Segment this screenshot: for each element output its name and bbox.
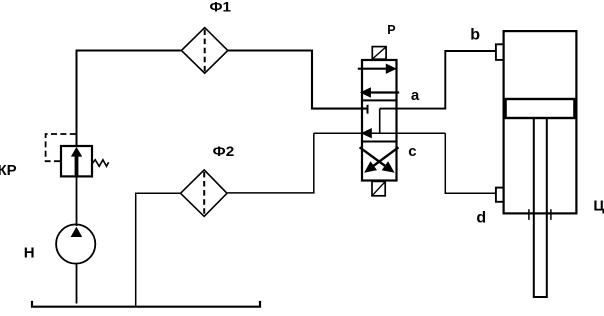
valve bottom pilot square <box>372 181 385 195</box>
piston rod <box>534 119 547 298</box>
tank <box>32 301 260 307</box>
svg-text:a: a <box>411 87 420 104</box>
spring of relief valve <box>92 160 108 167</box>
cylinder Ц body <box>504 31 577 213</box>
valve top position: arrow left <box>360 87 399 97</box>
valve top pilot square <box>372 47 386 60</box>
pump H <box>56 224 95 263</box>
svg-text:b: b <box>470 26 480 43</box>
svg-text:Н: Н <box>24 245 35 262</box>
wire: pump suction to tank <box>76 263 78 304</box>
svg-text:Ф1: Ф1 <box>210 0 232 15</box>
wire: return line through valve <box>314 132 446 134</box>
pilot line (dashed) <box>46 134 76 161</box>
svg-text:Ф2: Ф2 <box>213 143 235 159</box>
wire: relief valve to filter Ф1 <box>77 51 181 148</box>
svg-text:Ц: Ц <box>593 198 604 215</box>
svg-text:Р: Р <box>387 23 395 37</box>
piston <box>506 99 575 118</box>
svg-text:КР: КР <box>0 162 17 179</box>
valve top position: arrow right <box>358 64 397 74</box>
wire c: valve to cylinder port d <box>445 133 496 193</box>
wire a: valve to cylinder port b <box>380 51 496 109</box>
filter Ф2 <box>181 170 228 217</box>
filter Ф1 <box>181 28 227 74</box>
svg-text:c: c <box>408 143 416 160</box>
valve Р body <box>361 60 398 181</box>
cylinder port d boss <box>496 188 504 202</box>
valve middle position: blocked port tick <box>367 105 369 114</box>
cylinder port b boss <box>496 44 504 60</box>
valve middle position: internal link a to return <box>379 109 381 134</box>
wire: Ф2 to tank <box>136 193 181 307</box>
wire: pump to relief valve <box>76 176 78 226</box>
valve middle position: flow arrow to tank <box>361 128 372 138</box>
svg-text:d: d <box>476 209 486 226</box>
wire: Ф1 to valve P port <box>228 51 367 109</box>
wire: return to filter Ф2 <box>228 133 314 193</box>
rod gland ticks <box>528 209 530 220</box>
relief valve КР <box>61 146 92 176</box>
valve bottom position: crossed arrows <box>360 147 399 173</box>
